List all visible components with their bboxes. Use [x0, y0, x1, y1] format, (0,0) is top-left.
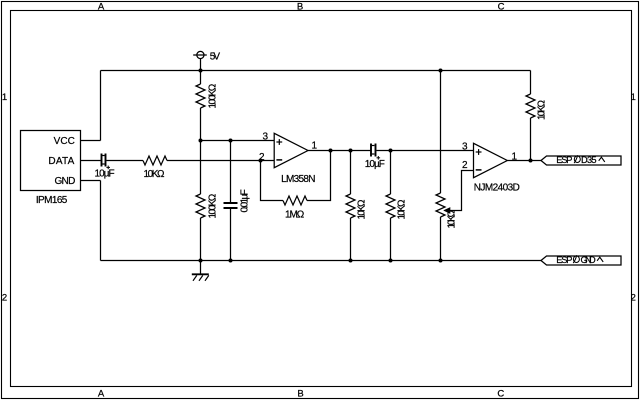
- svg-text:IPM165: IPM165: [36, 195, 68, 206]
- capacitor C3 10uF electrolytic: [371, 144, 380, 160]
- wire GND down to ground bus: [100, 181, 102, 261]
- resistor R3 10K ohm horizontal: [143, 156, 167, 165]
- capacitor C2 0.01uF plates: [224, 203, 238, 208]
- svg-text:D35: D35: [581, 155, 597, 165]
- resistor R4 10K ohm vertical: [346, 151, 355, 261]
- resistor R1 100K ohm vertical: [196, 71, 205, 195]
- node dot bus/R2: [199, 259, 203, 263]
- svg-text:DATA: DATA: [48, 156, 74, 167]
- svg-text:2: 2: [259, 152, 265, 163]
- svg-text:10KΩ: 10KΩ: [356, 199, 367, 220]
- potentiometer wiper arrowhead: [445, 208, 450, 213]
- svg-text:A: A: [98, 2, 105, 13]
- capacitor C2 0.01uF line bottom: [230, 209, 232, 261]
- svg-text:3: 3: [262, 131, 268, 142]
- tag text ESP GND: [556, 255, 596, 265]
- resistor R6 10K ohm pull-up vertical: [526, 71, 535, 161]
- svg-text:B: B: [297, 2, 303, 13]
- svg-text:1: 1: [312, 140, 318, 151]
- resistor R2 100K ohm vertical: [196, 194, 205, 261]
- svg-text:GND: GND: [55, 176, 76, 187]
- svg-text:10KΩ: 10KΩ: [144, 169, 166, 180]
- wire top 5V bus: [101, 70, 531, 72]
- svg-text:0.01µF: 0.01µF: [239, 189, 250, 212]
- op-amp U3 minus sign: [476, 169, 482, 171]
- svg-text:NJM2403D: NJM2403D: [474, 182, 520, 193]
- svg-text:1: 1: [2, 92, 7, 103]
- power 5V symbol: [193, 51, 207, 70]
- op-amp U2 plus sign: [276, 139, 282, 145]
- svg-text:2: 2: [631, 292, 636, 303]
- wire bottom ground bus: [101, 260, 542, 262]
- svg-text:5V: 5V: [210, 51, 221, 62]
- node dot bus-5V/R1: [199, 69, 203, 73]
- wire NJM output row: [507, 160, 541, 162]
- node dot output/feedback: [329, 149, 333, 153]
- svg-text:10KΩ: 10KΩ: [396, 199, 407, 220]
- resistor R5 10K ohm vertical: [386, 151, 395, 261]
- node dot NJM output / R6: [529, 159, 533, 163]
- wire feedback up to output: [307, 151, 331, 201]
- svg-text:100KΩ: 100KΩ: [207, 83, 218, 108]
- node dot C2 top: [229, 139, 233, 143]
- glyph no (hiragana) D35 tag: [574, 155, 580, 163]
- node dot bus/R5: [389, 259, 393, 263]
- tag flag ESP D35: [541, 156, 621, 165]
- op-amp U3 plus sign: [476, 149, 482, 155]
- svg-text:10KΩ: 10KΩ: [536, 99, 547, 120]
- svg-text:1: 1: [631, 92, 636, 103]
- pin VCC stub: [81, 140, 101, 142]
- svg-text:2: 2: [2, 292, 7, 303]
- svg-text:1: 1: [512, 151, 518, 162]
- svg-text:ESP: ESP: [556, 255, 572, 265]
- capacitor C1 10uF electrolytic: [102, 154, 111, 170]
- wire feedback from inverting node down: [261, 161, 284, 201]
- node dot output/R5: [389, 149, 393, 153]
- resistor R7 1M ohm horizontal: [283, 196, 307, 205]
- svg-text:10µF: 10µF: [95, 168, 115, 179]
- wire VCC to 5V bus: [100, 71, 102, 141]
- potentiometer wiper arrow wire: [450, 171, 474, 211]
- svg-text:10KΩ: 10KΩ: [446, 209, 457, 228]
- op-amp U2 minus sign: [276, 159, 282, 161]
- svg-text:B: B: [297, 389, 303, 400]
- wire noninverting input row LM358: [201, 140, 275, 142]
- glyph he (hiragana) D35 tag: [599, 157, 605, 162]
- op-amp U2 LM358N triangle: [274, 133, 308, 167]
- svg-text:LM358N: LM358N: [281, 174, 315, 185]
- svg-text:C: C: [497, 389, 504, 400]
- op-amp U3 NJM2403D triangle: [474, 143, 508, 177]
- glyph he (hiragana) GND tag: [597, 257, 603, 262]
- node dot bus/R4: [349, 259, 353, 263]
- node dot bus/VR1 top: [439, 69, 443, 73]
- IC U1 IPM165 body: [21, 131, 81, 191]
- svg-text:VCC: VCC: [54, 136, 75, 147]
- svg-text:10µF: 10µF: [365, 159, 385, 170]
- tag flag ESP GND: [541, 256, 621, 265]
- svg-text:100KΩ: 100KΩ: [207, 193, 218, 218]
- tag text ESP D35: [556, 155, 596, 165]
- svg-text:2: 2: [462, 160, 468, 171]
- node dot inverting input feedback: [259, 159, 263, 163]
- glyph no (hiragana) GND tag: [573, 255, 579, 263]
- node dot divider mid / pin3 wire: [199, 139, 203, 143]
- svg-text:ESP: ESP: [556, 155, 572, 165]
- wire R3 to inverting input LM358: [167, 160, 274, 162]
- potentiometer VR1 10K ohm: [436, 71, 445, 261]
- node dot output/R4: [349, 149, 353, 153]
- node dot bus/VR1: [439, 259, 443, 263]
- svg-text:1MΩ: 1MΩ: [285, 209, 305, 220]
- node dot bus/C2: [229, 259, 233, 263]
- svg-text:GND: GND: [581, 255, 596, 265]
- ground symbol: [192, 261, 209, 281]
- pin GND stub: [81, 180, 101, 182]
- capacitor C2 0.01uF line top: [230, 141, 232, 203]
- wire LM358 output row: [308, 150, 370, 152]
- wire cap C3 to NJM input: [377, 150, 474, 152]
- svg-text:3: 3: [462, 141, 468, 152]
- pin DATA stub: [81, 160, 101, 162]
- wire DATA to R3: [107, 160, 144, 162]
- svg-text:C: C: [498, 2, 505, 13]
- svg-text:A: A: [98, 389, 105, 400]
